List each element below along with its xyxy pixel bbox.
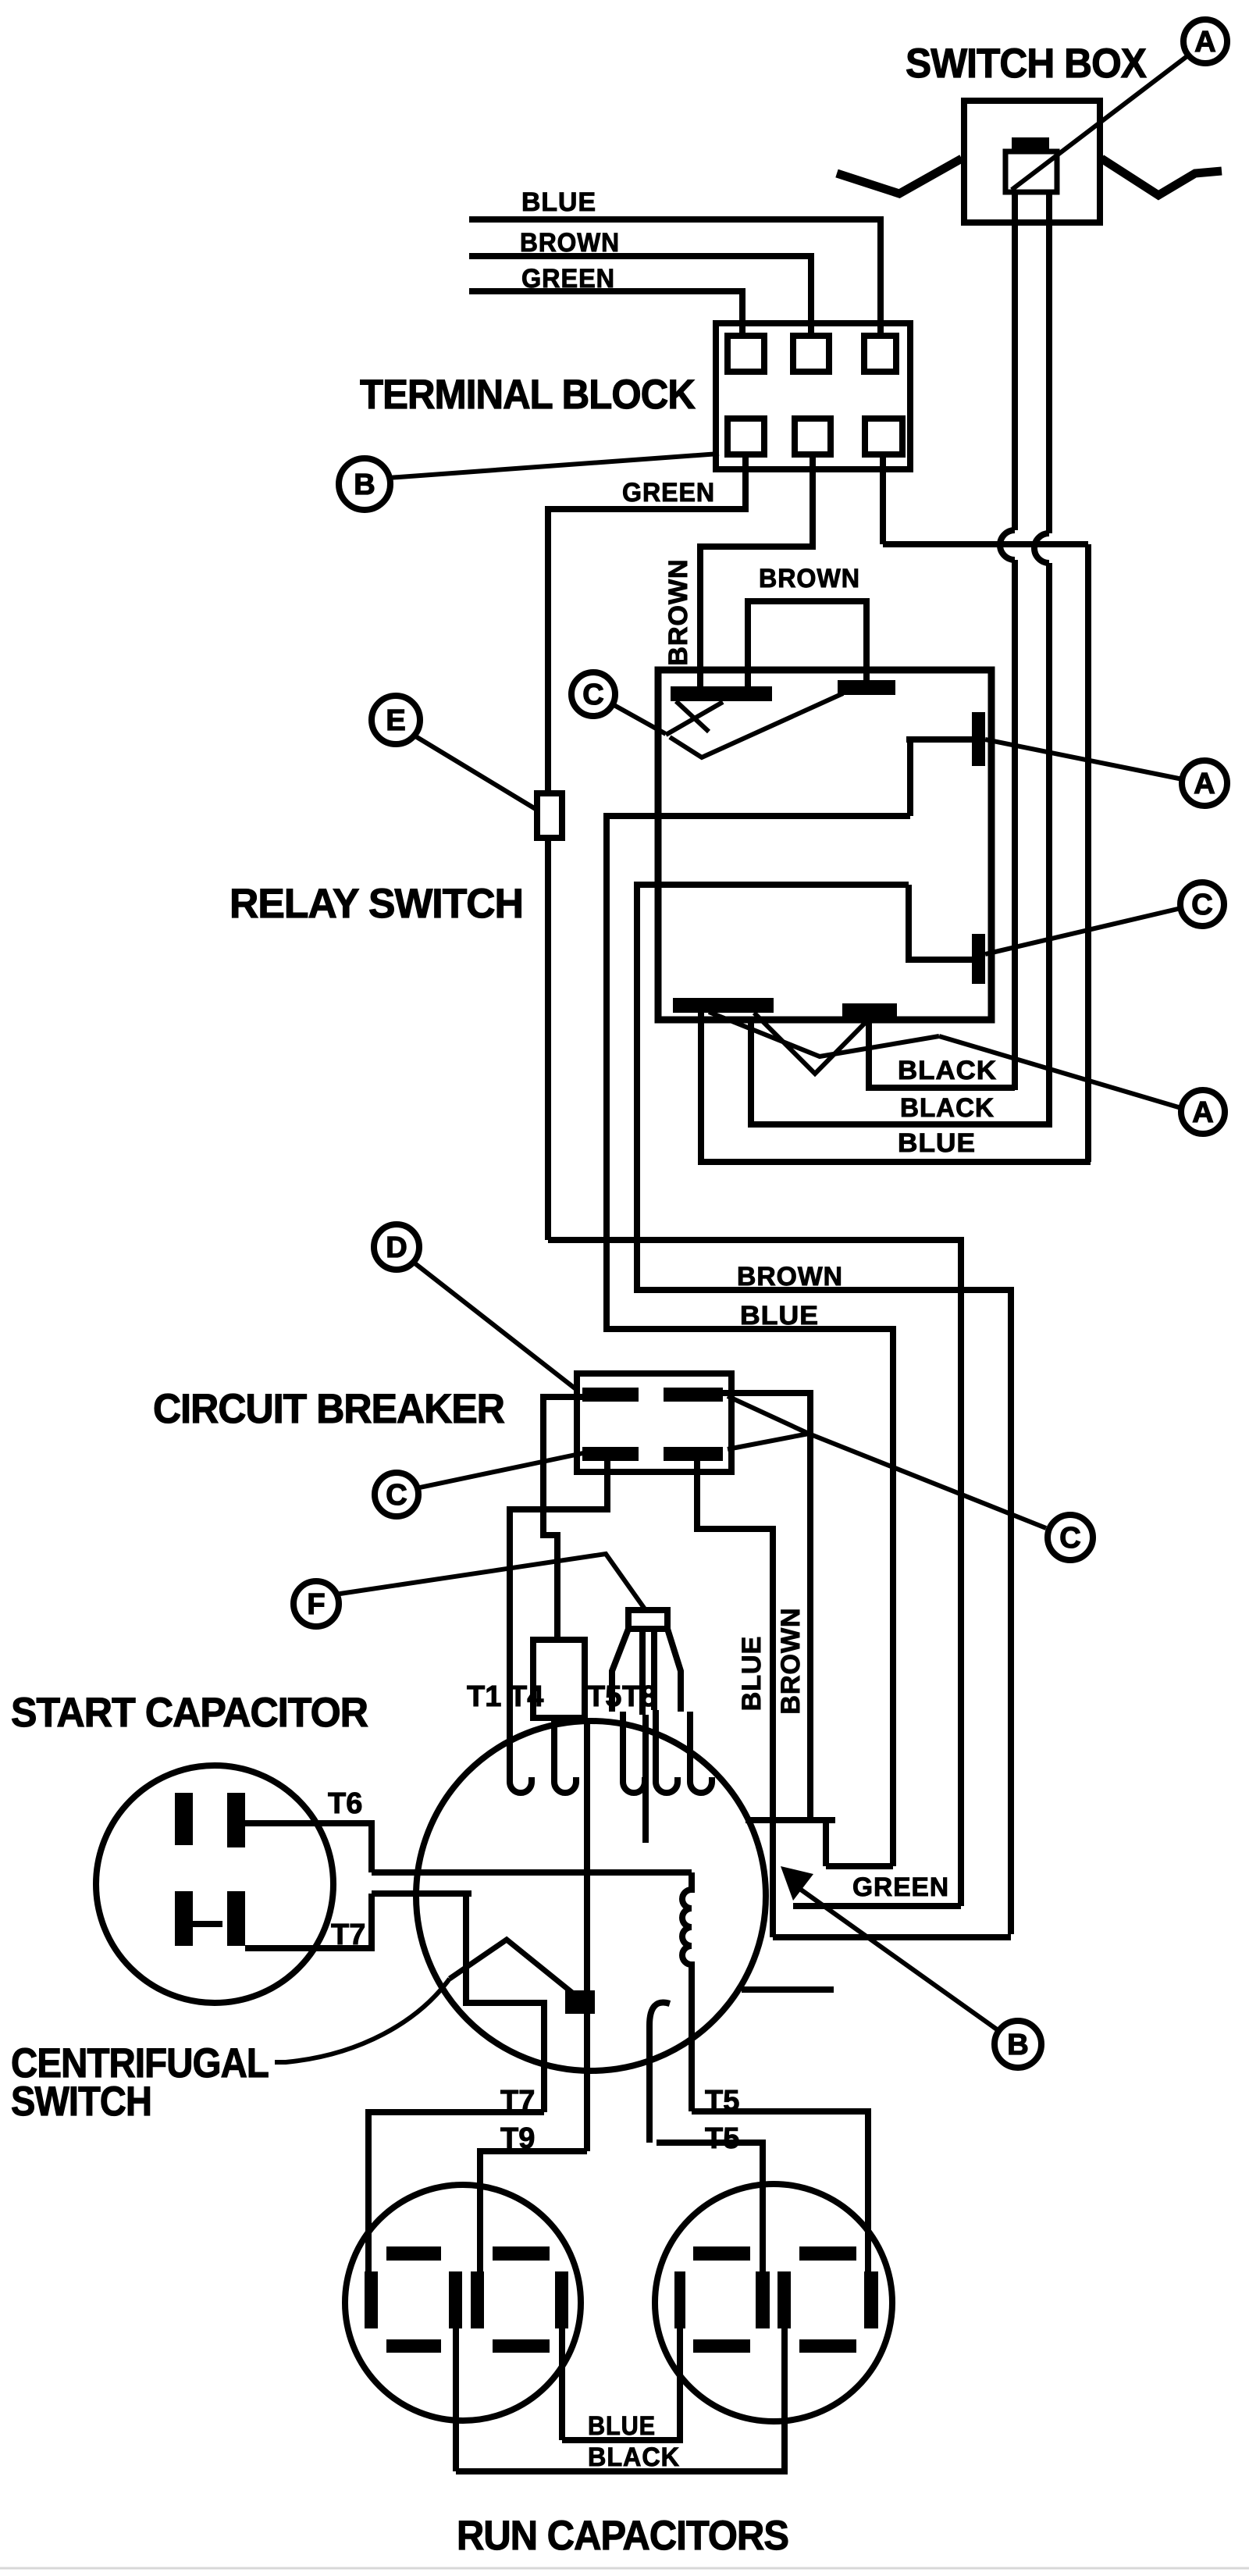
leader D [413, 1262, 577, 1390]
svg-text:RUN CAPACITORS: RUN CAPACITORS [457, 2513, 788, 2559]
svg-text:T5: T5 [705, 2122, 739, 2155]
svg-text:BLUE: BLUE [521, 187, 596, 217]
callout circle E [372, 696, 420, 744]
breaker contact TL [582, 1388, 639, 1402]
wire to upper contact [906, 736, 972, 743]
wire T stem [907, 739, 913, 816]
leader B1 [388, 454, 719, 478]
relay contact bar bottom-left [673, 998, 774, 1013]
terminal 6 [865, 419, 902, 454]
terminal 5 [795, 419, 831, 454]
rc2 post left [674, 2271, 685, 2328]
rc2 plate bottom-right [799, 2339, 856, 2353]
svg-text:BROWN: BROWN [737, 1262, 843, 1292]
relay contact bar bottom-right [842, 1003, 897, 1017]
svg-text:T8: T8 [622, 1680, 657, 1713]
svg-text:BLACK: BLACK [588, 2442, 680, 2472]
breaker contact TR [664, 1388, 723, 1402]
callout circle B1 [339, 458, 390, 510]
svg-text:GREEN: GREEN [852, 1872, 949, 1902]
svg-text:T4: T4 [509, 1680, 543, 1713]
motor right H1 [745, 1820, 893, 1866]
start cap plate 3 [175, 1891, 193, 1946]
svg-text:BROWN: BROWN [664, 558, 693, 665]
wire switch drop 2 lower [1046, 563, 1052, 1127]
winding coil [682, 1872, 692, 2111]
rc2 plate bottom-left [693, 2339, 750, 2353]
svg-text:T5: T5 [587, 1680, 621, 1713]
wire switch drop 2 upper [1046, 192, 1052, 533]
relay contact bar top-left [671, 686, 772, 701]
centrifugal contact blob [565, 1990, 595, 2014]
breaker contact BL [582, 1447, 639, 1461]
green terminal arrowhead [781, 1866, 813, 1901]
svg-text:SWITCH BOX: SWITCH BOX [906, 41, 1147, 87]
wire start winding horizontal [372, 1894, 544, 2112]
leader C4 from bottom bar [728, 1434, 809, 1449]
centrifugal stationary hook [649, 2003, 670, 2143]
wire switch drop 1 upper [1012, 192, 1018, 530]
svg-text:BROWN: BROWN [759, 564, 860, 593]
run capacitor 2 circle [655, 2184, 892, 2421]
wall zigzag left [837, 159, 962, 194]
svg-text:SWITCH: SWITCH [11, 2079, 151, 2125]
leader C4 main [809, 1434, 1046, 1528]
wire relay out black row 2 [751, 1020, 1052, 1124]
leader E [413, 735, 536, 809]
wire rc1 black drop [453, 2328, 459, 2471]
rc1 post right [555, 2271, 568, 2328]
svg-text:C: C [1191, 889, 1212, 921]
callout circle B2 [995, 2021, 1041, 2068]
svg-text:F: F [307, 1588, 325, 1621]
callout circle D [374, 1224, 419, 1270]
svg-text:BLACK: BLACK [900, 1093, 995, 1123]
terminal 1 [728, 336, 764, 372]
switch box outline [964, 101, 1100, 223]
motor circle [416, 1721, 766, 2071]
lead hook 3 stub [623, 1712, 645, 1793]
svg-text:A: A [1194, 26, 1215, 59]
wire rc1 blue drop [559, 2328, 565, 2440]
callout circle C3 [375, 1473, 418, 1516]
lead hook 4 stub [690, 1712, 712, 1793]
callout circle C4 [1048, 1515, 1093, 1560]
leader C1 [611, 704, 666, 734]
wire T5 row 1 [692, 2111, 868, 2271]
wire brown lead [469, 256, 811, 336]
svg-text:B: B [354, 469, 375, 501]
wire blue from terminal 6 [883, 454, 1088, 1162]
wire brown from terminal 5 [700, 454, 813, 686]
svg-text:B: B [1007, 2029, 1028, 2061]
overload cap [628, 1610, 667, 1629]
wire relay horizontal 2 / brown run [637, 885, 1011, 1934]
crossover hop wire 1 [1000, 530, 1015, 560]
relay box [658, 670, 991, 1020]
wire blue lead [469, 219, 881, 336]
relay arm short 2 [666, 702, 723, 735]
lead hook 2 stub [554, 1718, 576, 1793]
svg-text:T6: T6 [328, 1787, 362, 1820]
svg-text:GREEN: GREEN [622, 478, 715, 508]
crossover hop wire 2 [1034, 533, 1049, 563]
rc1 post mid-right [471, 2271, 484, 2328]
wire relay out black row 1 [869, 1017, 1015, 1088]
callout circle F [294, 1581, 339, 1626]
leader A3 [939, 1036, 1181, 1108]
wire breaker BR exit [697, 1461, 773, 1937]
svg-text:BLUE: BLUE [740, 1301, 819, 1331]
start cap plate 1 [175, 1793, 193, 1845]
rc1 post left [365, 2271, 378, 2328]
wire brown return H4 [773, 1934, 1011, 1940]
wire relay coil loop [748, 601, 866, 686]
rc2 post mid-left [756, 2271, 770, 2328]
rc1 plate bottom-left [386, 2339, 441, 2353]
lead hook 5 stub [656, 1710, 678, 1793]
start cap plate 4 [227, 1891, 245, 1946]
start capacitor circle [96, 1765, 333, 2003]
wire switch drop 1 lower [1012, 560, 1018, 1090]
svg-text:A: A [1192, 1096, 1213, 1129]
wire green lead [469, 291, 742, 336]
svg-text:C: C [386, 1479, 407, 1512]
callout circle C2 [1180, 882, 1224, 926]
wire T9 row [480, 2151, 587, 2271]
callout circle A1 [1183, 20, 1227, 63]
rc2 plate top-left [693, 2246, 750, 2261]
rc1 plate top-right [493, 2246, 550, 2261]
run capacitor 1 circle [345, 2185, 581, 2421]
breaker box [577, 1374, 731, 1472]
leader C3 [416, 1453, 583, 1488]
rc1 plate bottom-right [493, 2339, 550, 2353]
overload flask right [667, 1629, 681, 1712]
overload electrode 1 [639, 1629, 646, 1715]
wire T7 row [368, 2112, 544, 2271]
wire T6 [245, 1823, 372, 1872]
relay contact bar top-right [838, 680, 895, 695]
lead hook 1 [510, 1766, 532, 1793]
leader C4 from top bar [728, 1396, 809, 1434]
svg-text:BLUE: BLUE [898, 1128, 976, 1158]
start cap plate 2 [227, 1793, 245, 1847]
relay arm long [670, 693, 843, 757]
rc1 plate top-left [386, 2246, 441, 2261]
leader centrifugal [275, 1979, 450, 2062]
terminal 2 [793, 336, 829, 372]
wire thermal to winding [584, 1718, 590, 2151]
svg-text:START CAPACITOR: START CAPACITOR [11, 1690, 368, 1736]
relay right contact lower [972, 934, 985, 984]
wire overload to centrifugal [642, 1715, 649, 1843]
wire breaker BL exit [510, 1461, 607, 1766]
overload flask left [612, 1629, 628, 1712]
leader C2 [985, 908, 1181, 954]
wire relay out blue row [701, 1013, 1091, 1162]
callout circle A3 [1181, 1090, 1225, 1134]
svg-text:BLUE: BLUE [588, 2411, 656, 2441]
leader A2 [985, 739, 1183, 779]
overload electrode 2 [651, 1629, 657, 1710]
wire main winding horizontal [372, 1869, 692, 1876]
callout circle A2 [1182, 761, 1227, 806]
rc2 plate top-right [799, 2246, 856, 2261]
svg-text:BLUE: BLUE [737, 1636, 767, 1712]
motor frame stub H5 [742, 1986, 834, 1993]
relay right contact upper [972, 712, 985, 766]
svg-text:BLACK: BLACK [898, 1056, 997, 1085]
svg-text:RELAY SWITCH: RELAY SWITCH [230, 881, 523, 927]
terminal 4 [728, 419, 764, 454]
wire blue link [562, 2328, 680, 2440]
wire green from terminal 4 [548, 454, 745, 1240]
wire breaker TL exit [543, 1397, 582, 1640]
svg-text:TERMINAL BLOCK: TERMINAL BLOCK [360, 372, 696, 418]
switch cap [1012, 137, 1049, 153]
page edge line [0, 2567, 1249, 2570]
rc2 post mid-right [778, 2271, 791, 2328]
svg-text:A: A [1194, 768, 1215, 800]
relay arm short 1 [676, 701, 709, 732]
breaker contact BR [664, 1447, 723, 1461]
leader B2 [801, 1890, 997, 2029]
wire green run [548, 1240, 961, 1906]
callout circle C1 [571, 672, 615, 716]
leader F [335, 1554, 646, 1610]
wire breaker TR exit [723, 1393, 810, 1820]
rc1 post mid-left [449, 2271, 462, 2328]
wall zigzag right [1101, 159, 1222, 195]
thermal protector box [533, 1640, 585, 1718]
wire T5 row 2 [657, 2143, 763, 2271]
wire black link [456, 2328, 785, 2471]
switch inner box [1005, 151, 1057, 192]
terminal 3 [864, 336, 896, 372]
relay bottom arm long [709, 1012, 939, 1056]
terminal block outline [716, 323, 910, 469]
relay bottom arm short [754, 1013, 873, 1074]
start cap link [193, 1921, 222, 1927]
leader A1 [1012, 55, 1188, 190]
rc2 post right [864, 2271, 878, 2328]
wire T7 [245, 1894, 372, 1948]
svg-text:CIRCUIT BREAKER: CIRCUIT BREAKER [153, 1386, 505, 1432]
svg-text:D: D [386, 1231, 407, 1264]
svg-text:E: E [386, 704, 405, 737]
svg-text:C: C [582, 679, 603, 711]
svg-text:T1: T1 [467, 1680, 501, 1713]
centrifugal arm [450, 1940, 580, 1999]
svg-text:C: C [1059, 1522, 1080, 1555]
svg-text:BROWN: BROWN [776, 1607, 806, 1714]
wire relay horizontal 1 / blue run [607, 816, 910, 1866]
fuse rect on green wire [537, 793, 562, 838]
